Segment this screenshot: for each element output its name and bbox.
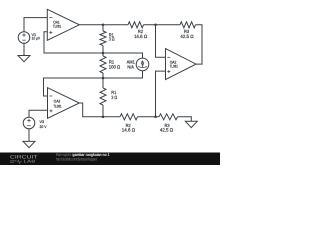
wire R3 to ground [178,117,192,122]
voltage source V3 20 V [23,117,47,129]
wire R2 to node B [144,24,181,26]
resistor R2 14.6 ohm (top) [128,22,148,39]
node D: OA2 + junction [154,116,157,119]
resistor R3 42.5 ohm (bottom) [159,114,178,133]
svg-text:10 μV: 10 μV [32,36,41,40]
node C: R1/R1 junction lower [102,77,105,80]
svg-text:TL081: TL081 [170,64,178,68]
resistor R1 100 ohm (middle of chain) [100,53,121,78]
svg-text:42.5 Ω: 42.5 Ω [160,128,174,133]
svg-text:N/A: N/A [127,65,133,70]
svg-text:3 Ω: 3 Ω [111,95,117,100]
wire V1 top to OA1 inverting input [24,18,47,32]
node R1 chain bottom [102,116,105,119]
wire V1 to ground [23,43,25,55]
svg-text:R1: R1 [111,90,117,95]
svg-text:3 Ω: 3 Ω [109,37,115,42]
resistor R1 3 ohm (bottom of chain) [100,78,118,117]
svg-text:OA3: OA3 [54,100,61,104]
wire V3 top to OA3 non-inverting input [29,110,48,117]
node B: OA2 inverting input junction [154,24,157,27]
resistor R2 14.6 ohm (bottom) [120,114,138,133]
wire OA2 non-inverting input to node D [156,71,166,117]
wire OA2 inverting input to node B [156,25,166,58]
wire AM1 loop top [103,53,143,58]
wire OA3 inverting input feedback to node C [44,78,104,96]
ammeter AM1 N/A [127,58,149,71]
ground below V1 [18,56,30,62]
svg-text:TL081: TL081 [53,25,61,29]
op-amp OA1 TL081 [47,9,79,40]
svg-text:TL081: TL081 [53,104,61,108]
svg-text:http://circuitlab.com/c/6pmpq4: http://circuitlab.com/c/6pmpq4z/duqqws/ [56,157,97,162]
resistor R3 42.5 ohm (top, feedback) [180,22,196,39]
wire top bus: OA1 output to R2 [79,24,128,26]
svg-text:14.6 Ω: 14.6 Ω [134,34,148,39]
voltage source V1 10 uV [18,32,40,44]
ground bottom right [185,121,197,127]
ground below V3 [23,141,35,147]
wire OA1 + input feedback from node A [44,32,103,53]
op-amp OA3 TL081 [48,88,80,119]
svg-text:14.6 Ω: 14.6 Ω [122,128,136,133]
node at OA1 output / R1 top [102,24,105,27]
svg-text:V3: V3 [40,120,45,124]
svg-text:42.5 Ω: 42.5 Ω [180,34,194,39]
svg-text:100 Ω: 100 Ω [109,65,121,70]
svg-text:LAB: LAB [24,160,37,164]
wire V3 to ground [28,129,30,142]
wire AM1 loop bottom [103,71,143,78]
resistor R1 3 ohm (top of chain) [100,25,115,53]
svg-text:20 V: 20 V [40,125,47,129]
node A: R1/R1 junction [102,52,105,55]
wire R3 to OA2 output [196,25,203,64]
op-amp OA2 TL081 [166,49,197,80]
footer banner [0,152,220,165]
wire OA3 output to bottom bus [79,103,120,117]
wire R2 to node D [138,116,160,118]
